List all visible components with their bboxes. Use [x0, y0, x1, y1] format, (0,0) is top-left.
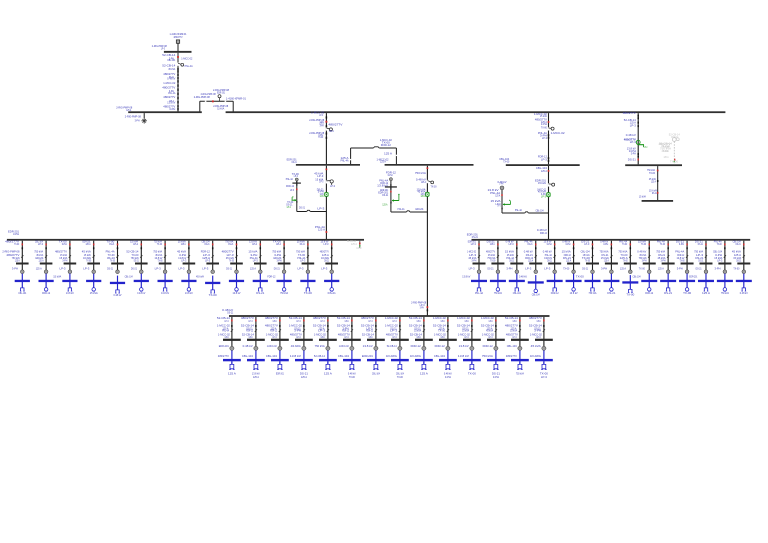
feeder B14: load label	[540, 371, 549, 379]
svg-text:TX-00: TX-00	[349, 375, 355, 379]
feeder B1: transformer primary bar	[223, 339, 241, 341]
feeder B11: transformer primary bar	[463, 339, 481, 341]
feeder B11: labels	[457, 316, 471, 339]
feeder T3: breaker circle	[60, 266, 72, 273]
tie riser right wire	[232, 101, 234, 111]
svg-text:LP-3: LP-3	[390, 329, 398, 333]
feeder T5: load symbol (blue)	[115, 290, 120, 293]
svg-text:15 kVA: 15 kVA	[510, 329, 517, 333]
feeder T26: drop wire + fuse	[686, 241, 688, 271]
feeder B13: breaker circle	[507, 344, 522, 350]
svg-text:PNL-4A: PNL-4A	[185, 64, 193, 68]
feeder T7: transformer primary bar	[159, 263, 172, 265]
feeder B12: breaker circle	[483, 344, 498, 350]
svg-text:LP-3: LP-3	[489, 335, 493, 339]
feeder B2: labels	[241, 316, 255, 339]
svg-text:DS-21: DS-21	[488, 266, 494, 270]
feeder T5: secondary wire and bar (blue)	[110, 276, 125, 290]
feeder T27: drop wire + fuse	[705, 241, 707, 271]
feeder T18: drop wire + fuse	[535, 241, 537, 271]
transformer TX-C (cross symbol)	[286, 181, 301, 188]
svg-text:3-PH: 3-PH	[489, 319, 493, 323]
feeder T4: labels	[82, 239, 92, 262]
connector wire TX-C to C vertical	[297, 206, 327, 212]
feeder T13: labels	[296, 239, 306, 262]
feeder T27: load symbol (blue)	[704, 288, 709, 291]
feeder T15: secondary wire and bar (blue)	[471, 274, 487, 288]
svg-text:LP-3: LP-3	[321, 266, 328, 270]
feeder T9: transformer primary bar	[206, 263, 219, 265]
ground relay arrow (green) TX-C	[292, 197, 297, 202]
feeder T22: breaker circle	[601, 266, 613, 273]
feeder T20: breaker circle	[563, 266, 575, 273]
svg-text:DS-21: DS-21	[664, 291, 673, 295]
svg-text:750 kVA: 750 kVA	[315, 344, 325, 348]
feeder T25: breaker circle	[658, 266, 670, 273]
fuse on tie (red)	[212, 100, 214, 102]
svg-text:0.48 kV: 0.48 kV	[519, 275, 527, 279]
feeder T13: drop wire + fuse	[307, 241, 309, 271]
svg-text:TX-00: TX-00	[660, 242, 665, 246]
feeder B3: load symbol (blue)	[277, 364, 283, 369]
tick on H sub drop	[649, 177, 659, 184]
feeder T21: secondary wire and bar (blue)	[584, 274, 600, 288]
svg-text:3-PH: 3-PH	[249, 335, 253, 339]
relay box (green) on D drop	[426, 192, 430, 196]
svg-text:TX-00: TX-00	[110, 258, 115, 262]
feeder B13: drop wire + fuse	[519, 317, 521, 349]
svg-text:3-PH: 3-PH	[321, 335, 325, 339]
svg-text:480/277V: 480/277V	[328, 122, 342, 126]
svg-text:3-PH: 3-PH	[499, 182, 503, 186]
svg-text:3-PH: 3-PH	[603, 242, 608, 246]
feeder B6: load symbol (blue)	[349, 364, 355, 369]
feeder B11: load symbol (blue)	[469, 364, 475, 369]
svg-text:DS-21: DS-21	[107, 266, 113, 270]
svg-text:DS-21: DS-21	[228, 242, 233, 246]
svg-text:LP-3: LP-3	[249, 319, 253, 323]
svg-text:LP-3: LP-3	[498, 204, 501, 208]
svg-text:TX-00: TX-00	[431, 185, 437, 189]
feeder T6: disconnect switch	[140, 255, 142, 257]
svg-text:LP-3: LP-3	[60, 266, 67, 270]
svg-text:LP-3: LP-3	[537, 335, 541, 339]
svg-text:TX-00: TX-00	[157, 242, 162, 246]
feeder T21: transformer primary bar	[586, 263, 599, 265]
svg-text:TX-00: TX-00	[563, 266, 569, 270]
svg-text:3-PH: 3-PH	[273, 319, 277, 323]
svg-text:CBL-104: CBL-104	[338, 354, 350, 358]
feeder T15: transformer primary bar	[473, 263, 486, 265]
feeder B10: labels	[433, 316, 447, 339]
feeder T3: transformer primary bar	[64, 263, 77, 265]
svg-text:DS-21: DS-21	[134, 258, 139, 262]
feeder T3: secondary wire and bar (blue)	[62, 274, 77, 288]
svg-text:480/277V: 480/277V	[163, 95, 175, 99]
feeder B8: labels	[385, 316, 399, 339]
svg-text:FDR-12: FDR-12	[342, 329, 349, 333]
svg-text:TX-00: TX-00	[622, 242, 627, 246]
feeder B13: transformer primary bar	[511, 339, 529, 341]
wire bus B to bus F	[548, 113, 550, 164]
feed junction labels bus E1	[315, 225, 327, 233]
feeder T27: disconnect switch	[705, 255, 707, 257]
svg-text:EDR-201: EDR-201	[219, 344, 229, 348]
svg-text:CBL-104: CBL-104	[532, 292, 540, 296]
svg-text:DS-21: DS-21	[131, 266, 137, 270]
svg-text:DS-21: DS-21	[492, 371, 501, 375]
svg-text:LP-3: LP-3	[664, 149, 669, 153]
svg-text:3-PH: 3-PH	[465, 319, 469, 323]
feeder T12: drop wire + fuse	[283, 241, 285, 271]
svg-text:CBL-104: CBL-104	[266, 354, 278, 358]
svg-text:LP-3: LP-3	[298, 266, 305, 270]
svg-text:DS-21: DS-21	[226, 266, 232, 270]
svg-text:TX-00: TX-00	[229, 258, 234, 262]
svg-text:TX-00: TX-00	[717, 242, 722, 246]
svg-text:TX-00: TX-00	[641, 242, 646, 246]
feeder T10: drop wire + fuse	[236, 241, 238, 271]
feeder B4: drop wire + fuse	[303, 317, 305, 349]
svg-text:DS-21: DS-21	[382, 193, 388, 197]
svg-text:750 kVA: 750 kVA	[516, 371, 524, 375]
svg-text:DS-21: DS-21	[300, 371, 309, 375]
feeder T11: secondary wire and bar (blue)	[253, 274, 268, 288]
svg-text:3-PH: 3-PH	[345, 319, 349, 323]
bus A (main 4160V bus left segment)	[128, 111, 202, 113]
svg-text:125 A: 125 A	[86, 242, 91, 246]
svg-text:480/277V: 480/277V	[174, 35, 183, 39]
svg-text:13.8 kV: 13.8 kV	[233, 291, 241, 295]
feeder T23: disconnect switch	[629, 255, 631, 257]
svg-text:125 A: 125 A	[604, 258, 609, 262]
feeder T4: load symbol (blue)	[92, 288, 96, 292]
svg-text:FDR-12: FDR-12	[366, 329, 373, 333]
feeder T1: drop wire + fuse	[22, 241, 24, 271]
svg-text:13.8 kV: 13.8 kV	[66, 291, 74, 295]
feeder B12: labels	[481, 316, 495, 339]
feeder B8: disconnect switch	[399, 329, 401, 331]
svg-text:3-PH: 3-PH	[534, 329, 541, 333]
svg-text:1-MCC-02: 1-MCC-02	[163, 81, 175, 85]
right-mid left drop: CT dot	[488, 180, 507, 207]
feeder T12: transformer primary bar	[278, 263, 291, 265]
svg-text:125 A: 125 A	[126, 108, 131, 112]
feeder T7: secondary wire and bar (blue)	[158, 274, 173, 288]
feeder T14: secondary wire and bar (blue)	[324, 274, 339, 288]
ghost branch (out of service)	[659, 133, 681, 165]
feeder B3: drop wire + fuse	[279, 317, 281, 349]
svg-text:15 kVA: 15 kVA	[538, 181, 546, 185]
feeder T16: load symbol (blue)	[496, 288, 500, 292]
feeder B13: load label	[516, 371, 524, 375]
feeder T2: secondary wire and bar (blue)	[39, 274, 54, 288]
feeder T17: disconnect switch	[516, 255, 518, 257]
feeder B5: load symbol (blue)	[325, 364, 331, 369]
breaker CB-C2	[326, 180, 336, 188]
feeder T16: transformer primary bar	[491, 263, 504, 265]
svg-text:3-PH: 3-PH	[369, 335, 373, 339]
feeder B3: breaker circle	[267, 344, 282, 350]
svg-text:EDR-201: EDR-201	[217, 90, 225, 94]
feeder B14: disconnect switch	[543, 329, 545, 331]
feeder B9: disconnect switch	[423, 329, 425, 331]
svg-text:LP-3: LP-3	[525, 266, 532, 270]
feeder T6: drop wire + fuse	[141, 241, 143, 271]
svg-text:125 A: 125 A	[169, 99, 174, 103]
svg-text:2-RIG-PMP-08: 2-RIG-PMP-08	[125, 114, 141, 118]
svg-text:13.8 kV: 13.8 kV	[252, 371, 260, 375]
feeder T1: secondary wire and bar (blue)	[15, 274, 30, 288]
feeder T15: disconnect switch	[478, 255, 480, 257]
feeder T18: load symbol (blue)	[534, 289, 538, 293]
feeder T10: labels	[222, 239, 235, 262]
feeder T27: secondary wire and bar (blue)	[698, 274, 714, 288]
feeder B9: load symbol (blue)	[421, 364, 427, 369]
svg-text:1-MCC-02: 1-MCC-02	[339, 344, 349, 348]
feeder B2: disconnect switch	[255, 329, 257, 331]
svg-text:3-PH: 3-PH	[679, 242, 684, 246]
feeder T24: drop wire + fuse	[648, 241, 650, 271]
svg-text:DS-21: DS-21	[736, 242, 741, 246]
fuse (red) on H drop	[637, 159, 639, 161]
svg-text:TX-00: TX-00	[318, 135, 323, 139]
connector wire right-mid	[502, 208, 549, 213]
feed junction labels bus G	[537, 228, 547, 235]
svg-text:52-CB-14: 52-CB-14	[162, 53, 176, 57]
svg-text:LP-3: LP-3	[297, 335, 301, 339]
svg-text:1-MCC-02: 1-MCC-02	[551, 131, 566, 135]
svg-text:0.48 kV: 0.48 kV	[740, 291, 748, 295]
feeder T11: disconnect switch	[259, 255, 261, 257]
feeder T2: drop wire + fuse	[45, 241, 47, 271]
feeder T19: transformer primary bar	[548, 263, 561, 265]
svg-text:TX-00: TX-00	[468, 371, 477, 375]
feeder T20: transformer primary bar	[567, 263, 580, 265]
feeder B14: drop wire + fuse	[543, 317, 545, 349]
feeder T8: breaker circle	[179, 266, 191, 273]
feeder T6: labels	[126, 239, 139, 262]
feeder T1: breaker circle	[12, 266, 24, 273]
feeder T5: drop wire + fuse	[117, 241, 119, 271]
feeder T28: load symbol (blue)	[723, 288, 727, 292]
svg-text:125 A: 125 A	[702, 291, 710, 295]
feeder T2: disconnect switch	[45, 255, 47, 257]
feeder B8: breaker circle	[387, 344, 402, 350]
feeder T23: drop wire + fuse	[630, 241, 632, 271]
CT dot on TX-D drop	[386, 171, 397, 181]
svg-text:TX-00: TX-00	[540, 371, 549, 375]
series instrument ticks on incomer	[177, 68, 179, 111]
feeder B12: load label	[492, 371, 501, 379]
feeder T16: secondary wire and bar (blue)	[490, 274, 506, 288]
feeder T2: load symbol (blue)	[44, 288, 48, 292]
feeder T16: drop wire + fuse	[497, 241, 499, 271]
feeder T15: breaker circle	[469, 266, 481, 273]
svg-text:DS-21: DS-21	[169, 75, 174, 79]
svg-text:LP-3: LP-3	[253, 258, 258, 262]
bridge right riser	[396, 148, 398, 164]
feeder B14: transformer primary bar	[535, 339, 553, 341]
svg-text:TX-00: TX-00	[733, 266, 739, 270]
svg-text:LP-3: LP-3	[393, 319, 397, 323]
feeder B13: load symbol (blue)	[517, 364, 523, 369]
svg-text:LP-3: LP-3	[205, 258, 210, 262]
svg-text:FDR-12: FDR-12	[270, 329, 277, 333]
svg-text:LP-3: LP-3	[318, 329, 326, 333]
feeder B14: secondary wire and bar (blue)	[530, 350, 553, 364]
feeder T17: load label	[513, 291, 521, 295]
svg-text:4/0 AWG: 4/0 AWG	[410, 354, 421, 358]
feeder T28: disconnect switch	[724, 255, 726, 257]
fuse switch on bridge	[373, 147, 379, 148]
green CT ring and arrow on H drop	[636, 140, 647, 149]
svg-text:LP-3: LP-3	[317, 207, 325, 211]
feeder T1: labels	[2, 239, 19, 262]
feeder T28: secondary wire and bar (blue)	[717, 274, 733, 288]
svg-text:15 kVA: 15 kVA	[53, 275, 61, 279]
svg-text:FDR-12: FDR-12	[645, 291, 653, 295]
svg-text:CBL-104: CBL-104	[242, 354, 254, 358]
svg-text:DS-21: DS-21	[698, 258, 703, 262]
feeder T9: disconnect switch	[212, 255, 214, 257]
svg-text:125 A: 125 A	[329, 129, 334, 133]
feeder T3: load label	[53, 275, 74, 295]
svg-text:3-PH: 3-PH	[506, 266, 512, 270]
feeder B11: breaker circle	[459, 344, 474, 350]
svg-text:13.8 kV: 13.8 kV	[570, 291, 578, 295]
feeder B6: labels	[337, 316, 351, 339]
svg-text:FDR-12: FDR-12	[246, 329, 253, 333]
labels H drop	[623, 111, 637, 161]
feeder B10: load label	[444, 371, 452, 379]
feeder T12: breaker circle	[274, 266, 286, 273]
fuse 2 (red) on H sub drop	[639, 188, 659, 198]
svg-text:CBL-104: CBL-104	[513, 291, 521, 295]
feeder T16: breaker circle	[488, 266, 500, 273]
bus1 (4.16kV main bus label)	[152, 44, 192, 53]
svg-text:EDR-201: EDR-201	[276, 371, 284, 375]
feeder T21: disconnect switch	[591, 255, 593, 257]
svg-text:TX-00: TX-00	[438, 329, 445, 333]
svg-text:480/277V: 480/277V	[506, 354, 517, 358]
svg-text:PNL-4A: PNL-4A	[286, 177, 293, 181]
svg-text:125 A: 125 A	[620, 266, 626, 270]
feeder T23: load label	[626, 292, 635, 296]
wire to motor M1	[143, 113, 145, 118]
bus F (right-mid bus)	[499, 157, 580, 166]
feeder T28: labels	[713, 239, 723, 262]
svg-text:TX-00: TX-00	[490, 258, 495, 262]
svg-text:13.8 kV: 13.8 kV	[363, 344, 373, 348]
feeder T15: labels	[467, 239, 477, 262]
svg-text:LP-3: LP-3	[630, 123, 637, 127]
svg-text:3-PH: 3-PH	[12, 266, 18, 270]
feeder B10: transformer primary bar	[439, 339, 457, 341]
svg-text:LP-3: LP-3	[630, 140, 637, 144]
feeder T22: disconnect switch	[610, 255, 612, 257]
svg-text:480/277V: 480/277V	[218, 354, 229, 358]
feeder T10: transformer primary bar	[230, 263, 243, 265]
feeder T18: transformer primary bar	[529, 263, 542, 265]
feeder T9: load label	[196, 275, 217, 297]
svg-text:52-CB-14: 52-CB-14	[162, 63, 176, 67]
feeder T5: transformer primary bar	[111, 263, 124, 265]
feeder T13: secondary wire and bar (blue)	[300, 274, 315, 288]
svg-text:125 A: 125 A	[351, 242, 357, 246]
feeder T7: disconnect switch	[164, 255, 166, 257]
labels F drop	[534, 112, 548, 162]
feeder B6: load label	[348, 371, 356, 379]
svg-text:4/0 AWG: 4/0 AWG	[530, 354, 541, 358]
feeder T13: load symbol (blue)	[306, 288, 311, 291]
feeder B9: breaker circle	[411, 344, 426, 350]
feeder T16: disconnect switch	[497, 255, 499, 257]
svg-text:3-PH: 3-PH	[13, 232, 19, 236]
svg-text:125 A: 125 A	[39, 258, 44, 262]
svg-text:13.8 kV: 13.8 kV	[185, 291, 193, 295]
tie link top wire	[200, 100, 233, 102]
svg-text:EDR-201: EDR-201	[689, 275, 697, 279]
feeder B10: secondary wire and bar (blue)	[434, 350, 457, 364]
feeder T14: drop wire + fuse	[331, 241, 333, 271]
spare stub at right end of bus E1	[347, 239, 361, 250]
svg-text:PNL-4A: PNL-4A	[398, 207, 405, 211]
feeder T10: load symbol (blue)	[235, 288, 239, 292]
svg-text:DS-21: DS-21	[628, 157, 637, 161]
svg-text:125 A: 125 A	[382, 203, 387, 207]
feeder T26: labels	[675, 239, 685, 262]
feeder B8: load symbol (blue)	[397, 364, 403, 369]
svg-text:FDR-12: FDR-12	[381, 143, 392, 147]
svg-text:LP-3: LP-3	[290, 188, 294, 192]
feeder T28: transformer primary bar	[718, 263, 731, 265]
feeder T15: drop wire + fuse	[478, 241, 480, 271]
feeder T17: labels	[505, 239, 515, 262]
svg-text:LP-3: LP-3	[644, 145, 647, 149]
feeder T11: labels	[248, 239, 258, 262]
svg-text:LP-3: LP-3	[393, 335, 397, 339]
svg-text:LP-3: LP-3	[300, 258, 305, 262]
feeder B5: secondary wire and bar (blue)	[314, 350, 337, 364]
feeder T11: transformer primary bar	[254, 263, 267, 265]
svg-text:DS-21: DS-21	[509, 258, 514, 262]
feeder T21: breaker circle	[582, 266, 594, 273]
feeder B4: labels	[289, 316, 303, 339]
svg-text:CBL-104: CBL-104	[396, 371, 404, 375]
svg-text:125 A: 125 A	[421, 180, 426, 184]
bus E1 (left feeder bus)	[7, 229, 364, 240]
svg-text:125 A: 125 A	[528, 258, 533, 262]
svg-text:125 A: 125 A	[420, 371, 428, 375]
feeder T14: breaker circle	[321, 266, 333, 273]
labels D drop bottom near bus E	[411, 301, 428, 312]
feeder T10: secondary wire and bar (blue)	[229, 274, 244, 288]
svg-text:DS-21: DS-21	[328, 291, 337, 295]
fuse (red) TX-D	[390, 191, 392, 193]
wire bus H to panel bar	[657, 166, 659, 200]
svg-text:DS-21: DS-21	[300, 242, 305, 246]
svg-text:45 kVA: 45 kVA	[168, 67, 175, 71]
svg-text:3-PH: 3-PH	[420, 305, 424, 309]
feeder B1: drop wire + fuse	[231, 317, 233, 349]
svg-text:15 kVA: 15 kVA	[462, 329, 469, 333]
labels incomer chain left column	[162, 53, 176, 111]
svg-text:52-CB-14: 52-CB-14	[314, 354, 325, 358]
feeder B9: load label	[420, 371, 428, 375]
feeder T12: load label	[267, 275, 288, 295]
feeder T4: load label	[90, 291, 98, 295]
